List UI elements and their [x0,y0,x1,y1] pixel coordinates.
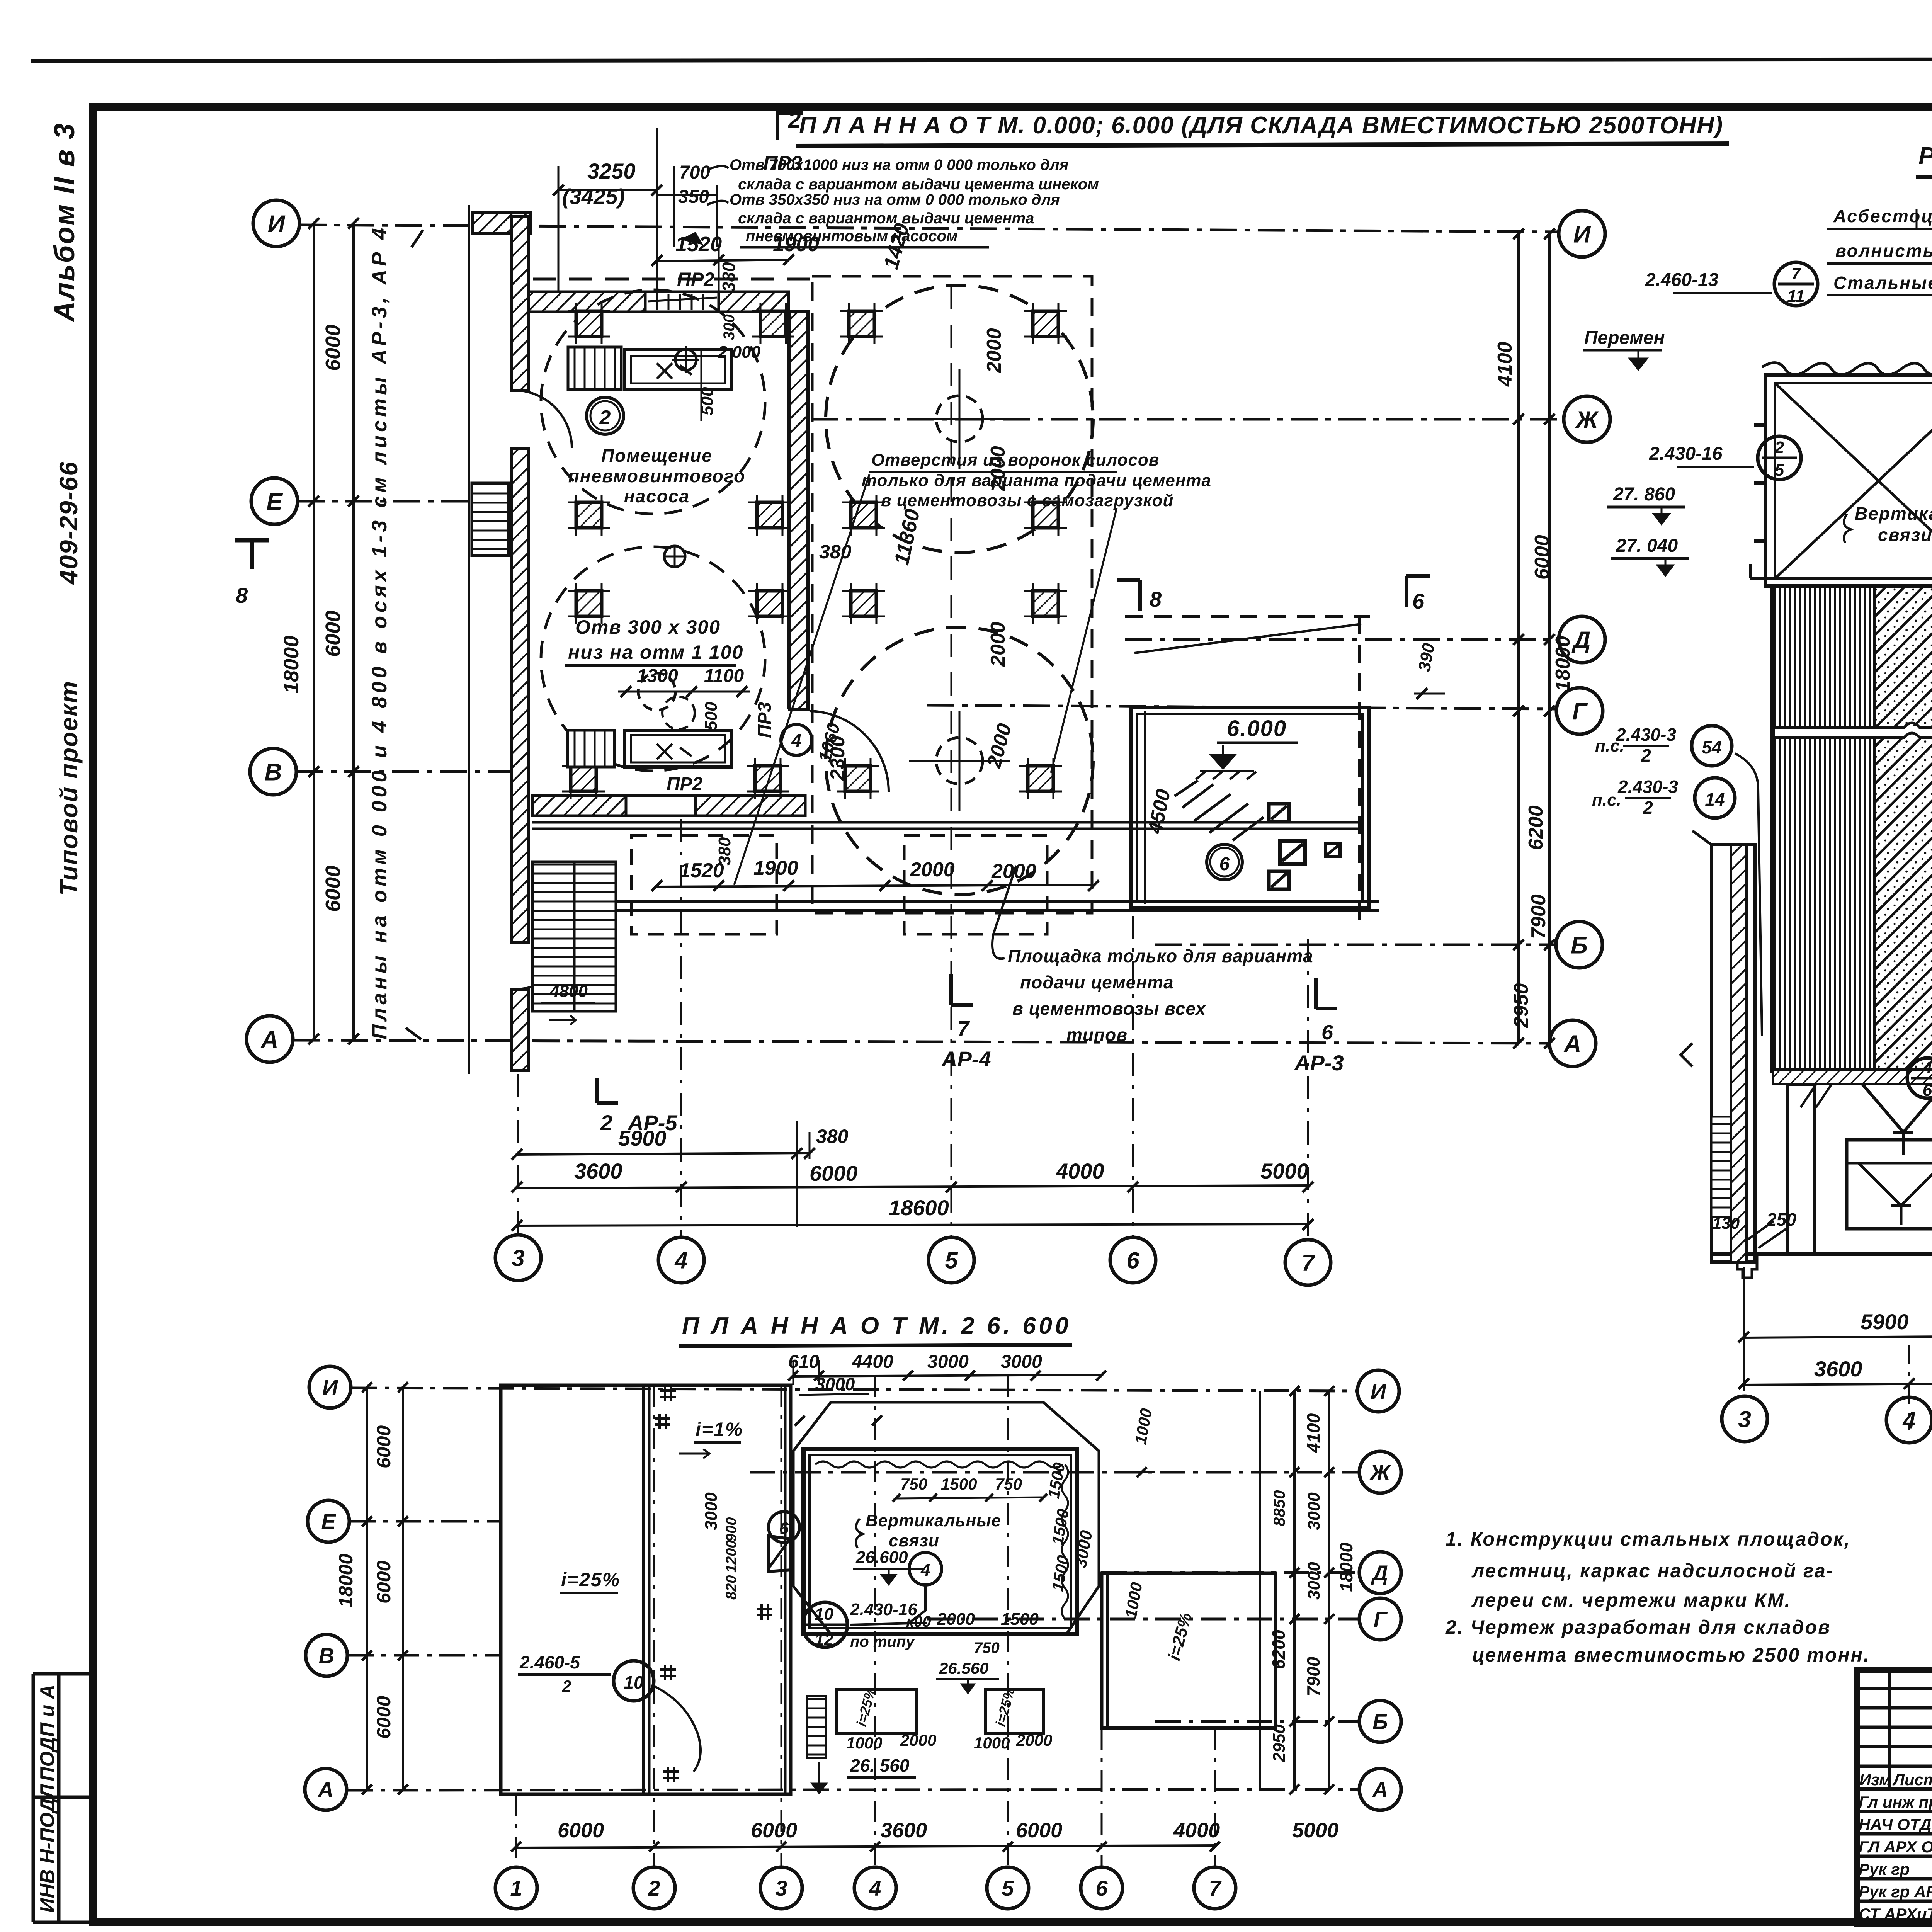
svg-text:6.000: 6.000 [1227,716,1287,741]
svg-text:А: А [317,1777,333,1802]
svg-text:п.с.: п.с. [1595,736,1624,755]
svg-text:4: 4 [1922,1058,1932,1077]
svg-text:6200: 6200 [1269,1629,1289,1669]
svg-text:типов: типов [1066,1025,1128,1045]
svg-text:2000: 2000 [910,859,955,881]
svg-text:Перемен: Перемен [1584,328,1665,348]
svg-text:А: А [1372,1777,1388,1802]
svg-text:7900: 7900 [1303,1656,1323,1696]
svg-text:Г: Г [1572,698,1588,725]
svg-text:в цементовозы с самозагрузк: в цементовозы с самозагрузкой [881,491,1173,510]
svg-text:Д: Д [1371,1561,1388,1585]
svg-text:5: 5 [1775,461,1784,480]
svg-text:низ на отм 1 100: низ на отм 1 100 [568,641,743,663]
svg-text:Отверстия из воронок силосо: Отверстия из воронок силосов [871,451,1159,469]
svg-text:11: 11 [1787,287,1805,306]
svg-text:2: 2 [600,1111,612,1135]
svg-text:Изм: Изм [1859,1770,1891,1789]
svg-text:6: 6 [1923,1081,1932,1100]
svg-text:6200: 6200 [1525,805,1547,850]
svg-text:Вертикальные: Вертикальные [866,1511,1001,1530]
svg-text:3: 3 [512,1245,524,1271]
svg-text:4100: 4100 [1494,342,1516,387]
svg-text:14: 14 [1705,789,1725,810]
svg-text:1000: 1000 [974,1734,1010,1752]
svg-text:18000: 18000 [1336,1543,1356,1592]
svg-text:склада с вариантом выдачи цеме: склада с вариантом выдачи цемента шнеком [738,176,1099,193]
svg-text:2.430-16: 2.430-16 [1649,444,1723,464]
svg-text:6000: 6000 [751,1819,797,1842]
svg-text:18000: 18000 [1552,636,1574,692]
svg-text:2300: 2300 [827,736,849,781]
svg-text:750: 750 [900,1475,927,1493]
svg-text:подачи цемента: подачи цемента [1020,972,1174,992]
svg-text:750: 750 [995,1475,1022,1493]
svg-text:6000: 6000 [810,1161,858,1185]
svg-text:6000: 6000 [373,1561,395,1604]
svg-text:Площадка только для вариант: Площадка только для варианта [1008,946,1313,966]
svg-text:4: 4 [920,1561,930,1580]
svg-text:3000: 3000 [927,1352,969,1372]
svg-text:В: В [319,1643,334,1668]
svg-text:2: 2 [599,406,611,429]
svg-text:В: В [265,759,282,786]
svg-text:Д: Д [1571,627,1591,653]
svg-text:Альбом II в 3: Альбом II в 3 [48,122,80,323]
svg-text:Планы на отм 0 000 и 4 80: Планы на отм 0 000 и 4 800 в осях 1-3 см… [368,228,391,1039]
svg-text:Г: Г [1374,1607,1388,1631]
svg-text:П Л А Н Н А О Т М. 0.00: П Л А Н Н А О Т М. 0.000; 6.000 (ДЛЯ СКЛ… [799,112,1723,139]
svg-text:4400: 4400 [852,1352,893,1372]
svg-text:5: 5 [945,1248,958,1274]
svg-text:6: 6 [1321,1021,1333,1044]
svg-text:1200: 1200 [723,1540,740,1573]
svg-text:4: 4 [869,1876,881,1900]
svg-text:4: 4 [1902,1408,1915,1434]
svg-text:26. 560: 26. 560 [850,1755,910,1776]
svg-text:2.460-13: 2.460-13 [1645,270,1719,290]
svg-text:1500: 1500 [1001,1610,1039,1629]
svg-text:i=1%: i=1% [696,1418,743,1440]
svg-text:И: И [1573,221,1591,248]
svg-text:Отв 300 х 300: Отв 300 х 300 [575,616,721,638]
svg-text:Отв 700х1000 низ на отм 0 000: Отв 700х1000 низ на отм 0 000 только для [730,156,1068,173]
svg-text:склада с вариантом выдачи цеме: склада с вариантом выдачи цемента [738,210,1034,227]
svg-text:3000: 3000 [702,1492,721,1530]
svg-text:10: 10 [624,1672,644,1692]
svg-text:1300: 1300 [637,666,678,686]
svg-text:И: И [268,211,286,237]
svg-text:Рук гр: Рук гр [1859,1860,1910,1878]
svg-text:26.560: 26.560 [939,1659,988,1677]
svg-text:2: 2 [648,1876,660,1900]
svg-text:3600: 3600 [1814,1357,1862,1381]
svg-text:1900: 1900 [753,857,798,879]
svg-text:АР-4: АР-4 [941,1047,991,1071]
svg-text:2.430-3: 2.430-3 [1616,724,1676,745]
svg-text:СТ АРХиТ: СТ АРХиТ [1859,1905,1932,1923]
svg-text:6000: 6000 [1531,535,1553,580]
svg-text:500: 500 [702,702,721,730]
svg-text:6000: 6000 [321,611,345,657]
svg-text:ПР2: ПР2 [677,269,714,290]
svg-text:2. Чертеж разработан для ск: 2. Чертеж разработан для складов [1445,1616,1831,1638]
svg-text:2000: 2000 [987,622,1009,667]
svg-text:1500: 1500 [941,1475,977,1493]
svg-text:4000: 4000 [1173,1819,1220,1842]
svg-text:8: 8 [236,583,248,607]
svg-text:Е: Е [266,488,283,515]
svg-text:лестниц, каркас надсилосной: лестниц, каркас надсилосной га- [1471,1560,1834,1582]
svg-text:Б: Б [1571,932,1588,959]
svg-text:Ж: Ж [1369,1460,1391,1485]
svg-text:3000: 3000 [815,1374,855,1394]
svg-text:8850: 8850 [1270,1490,1288,1526]
svg-text:ГЛ АРХ ОТД: ГЛ АРХ ОТД [1859,1838,1932,1856]
svg-text:12: 12 [815,1630,833,1649]
svg-text:2.430-3: 2.430-3 [1617,777,1678,797]
svg-text:НАЧ ОТД: НАЧ ОТД [1859,1815,1932,1833]
svg-text:2: 2 [562,1677,571,1695]
svg-text:только для варианта подачи: только для варианта подачи цемента [862,471,1211,490]
svg-text:И: И [322,1375,338,1400]
svg-text:18000: 18000 [335,1554,357,1607]
svg-text:6000: 6000 [558,1819,604,1842]
svg-text:130: 130 [1713,1214,1740,1232]
svg-text:18000: 18000 [280,636,303,694]
svg-text:900: 900 [723,1517,740,1542]
svg-text:2 000: 2 000 [718,343,761,362]
svg-text:54: 54 [1702,737,1721,757]
svg-text:380: 380 [715,837,734,866]
svg-text:Стальные грогоны: Стальные грогоны [1833,273,1932,293]
svg-text:п.с.: п.с. [1592,791,1621,810]
svg-text:1. Конструкции стальных пло: 1. Конструкции стальных площадок, [1446,1528,1851,1550]
svg-text:Рук гр АРХ: Рук гр АРХ [1859,1883,1932,1901]
svg-text:А: А [260,1026,279,1053]
svg-text:7: 7 [1791,264,1802,283]
svg-text:2950: 2950 [1510,983,1532,1028]
svg-text:связи: связи [889,1531,939,1550]
svg-text:А: А [1563,1031,1582,1057]
svg-text:4: 4 [791,730,801,750]
svg-text:7: 7 [1301,1250,1315,1276]
svg-text:ПР3: ПР3 [755,702,775,738]
svg-text:Отв 350х350 низ на отм 0 000 т: Отв 350х350 низ на отм 0 000 только для [730,191,1060,208]
svg-text:насоса: насоса [624,486,690,506]
svg-text:5900: 5900 [1861,1310,1909,1334]
svg-text:6: 6 [1412,589,1425,613]
svg-text:5900: 5900 [618,1126,667,1150]
svg-text:2000: 2000 [983,328,1005,373]
svg-text:Типовой проект: Типовой проект [55,680,83,896]
svg-text:Ж: Ж [1575,406,1599,433]
svg-text:2: 2 [1774,438,1784,457]
svg-text:Б: Б [1372,1709,1388,1734]
svg-text:26.600: 26.600 [855,1548,908,1567]
svg-text:к00: к00 [906,1613,931,1630]
svg-text:2000: 2000 [1016,1731,1052,1749]
svg-text:6: 6 [1126,1248,1139,1274]
svg-text:связи: связи [1878,525,1932,545]
svg-text:4800: 4800 [549,982,588,1001]
svg-text:И: И [1371,1379,1387,1403]
svg-text:ПР2: ПР2 [667,774,703,794]
svg-text:6000: 6000 [321,866,345,912]
svg-text:27. 040: 27. 040 [1616,536,1678,556]
svg-text:6: 6 [779,1519,789,1538]
svg-text:Помещение: Помещение [601,446,713,466]
svg-text:4100: 4100 [1303,1413,1323,1453]
svg-text:10: 10 [815,1605,833,1624]
svg-text:820: 820 [723,1575,740,1600]
svg-text:по типу: по типу [850,1633,915,1650]
svg-text:6000: 6000 [373,1425,395,1468]
svg-text:3600: 3600 [881,1819,927,1842]
svg-text:250: 250 [1766,1209,1796,1230]
svg-text:2000: 2000 [937,1610,975,1629]
svg-text:ПОДП и А: ПОДП и А [36,1685,59,1781]
svg-text:2000: 2000 [991,860,1036,883]
svg-text:Р А З Р Е З 8 - 8: Р А З Р Е З 8 - 8 [1918,142,1932,170]
svg-text:7: 7 [957,1017,970,1040]
svg-text:пневмовинтового: пневмовинтового [568,466,746,486]
svg-text:2: 2 [788,107,801,133]
svg-text:цемента вместимостью 2500 то: цемента вместимостью 2500 тонн. [1472,1644,1870,1666]
svg-text:18600: 18600 [889,1196,949,1220]
svg-text:5000: 5000 [1292,1819,1338,1842]
svg-text:Гл инж пр: Гл инж пр [1859,1793,1932,1811]
svg-text:i=25%: i=25% [561,1569,620,1590]
svg-text:409-29-66: 409-29-66 [54,461,83,585]
svg-text:1100: 1100 [704,666,744,686]
svg-text:6000: 6000 [1016,1819,1062,1842]
svg-text:3: 3 [775,1876,787,1900]
svg-text:3: 3 [1738,1406,1751,1432]
svg-text:6000: 6000 [373,1696,395,1739]
svg-text:380: 380 [719,262,739,292]
svg-text:3000: 3000 [1304,1492,1323,1530]
svg-text:1000: 1000 [846,1734,882,1752]
svg-text:27. 860: 27. 860 [1613,484,1675,505]
svg-text:5: 5 [1002,1876,1014,1900]
svg-text:1520: 1520 [675,233,722,256]
svg-text:3000: 3000 [1001,1352,1042,1372]
svg-text:лереи см. чертежи марки КМ.: лереи см. чертежи марки КМ. [1471,1589,1791,1611]
svg-text:2: 2 [1641,745,1651,765]
svg-text:6000: 6000 [321,325,345,371]
svg-text:1900: 1900 [773,233,819,256]
svg-text:ИНВ Н-ПОДЛ: ИНВ Н-ПОДЛ [36,1784,59,1913]
svg-text:Лист: Лист [1892,1770,1932,1789]
svg-text:300: 300 [721,314,738,340]
svg-text:Е: Е [321,1509,336,1534]
svg-text:7: 7 [1209,1876,1222,1900]
svg-text:Вертикальные: Вертикальные [1855,503,1932,524]
svg-text:2000: 2000 [900,1731,936,1749]
svg-text:2.460-5: 2.460-5 [519,1652,580,1672]
svg-text:8: 8 [1150,587,1162,611]
svg-text:2: 2 [1643,798,1653,818]
svg-text:380: 380 [816,1126,849,1147]
svg-text:700: 700 [679,162,710,183]
svg-text:4000: 4000 [1056,1159,1104,1183]
svg-text:350: 350 [678,187,709,207]
svg-text:3000: 3000 [1304,1562,1323,1600]
svg-text:2950: 2950 [1270,1724,1289,1762]
svg-text:4: 4 [674,1248,687,1274]
svg-text:3250: 3250 [587,159,636,183]
svg-text:7900: 7900 [1527,894,1550,939]
svg-text:(3425): (3425) [562,184,625,209]
svg-text:3600: 3600 [574,1159,622,1183]
svg-text:в цементовозы всех: в цементовозы всех [1012,998,1206,1019]
svg-text:6: 6 [1095,1876,1108,1900]
svg-text:750: 750 [974,1639,1000,1656]
svg-text:1: 1 [510,1876,522,1900]
svg-text:АР-3: АР-3 [1294,1051,1344,1075]
svg-text:6: 6 [1219,854,1230,874]
svg-text:волнистые листы: волнистые листы [1835,241,1932,261]
svg-text:5000: 5000 [1260,1159,1309,1183]
